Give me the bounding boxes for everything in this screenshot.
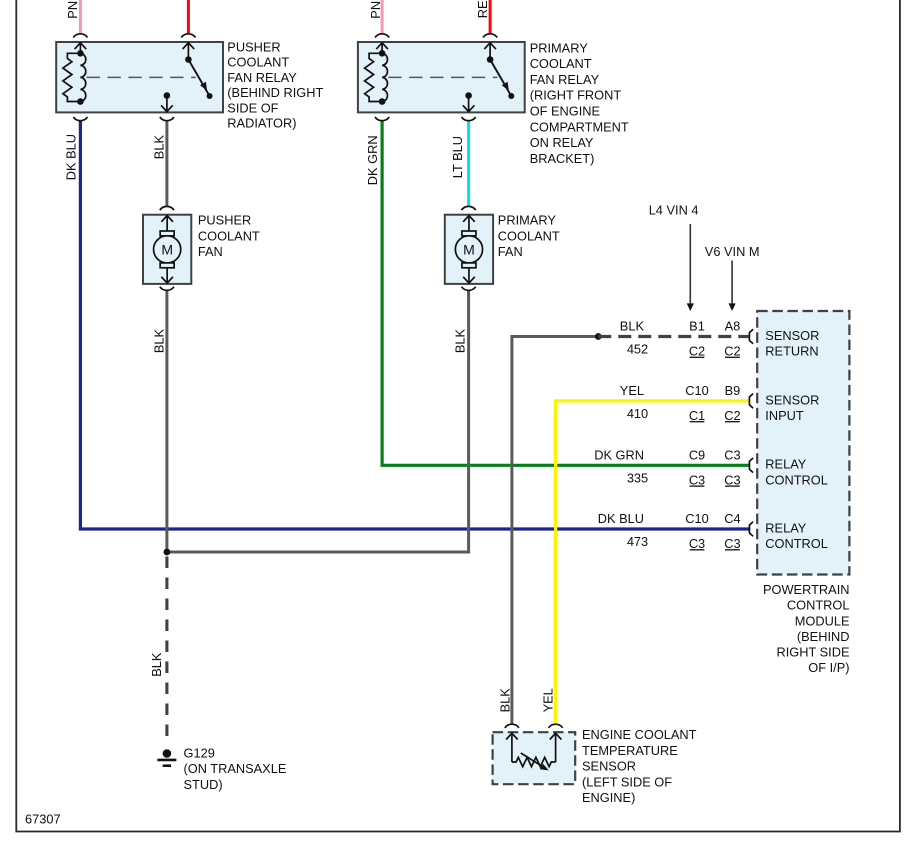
svg-text:CONTROL: CONTROL xyxy=(765,536,828,551)
svg-text:G129: G129 xyxy=(184,745,215,760)
svg-text:452: 452 xyxy=(627,342,648,357)
svg-text:C9: C9 xyxy=(689,447,705,462)
svg-text:M: M xyxy=(161,242,173,258)
svg-text:A8: A8 xyxy=(725,319,741,334)
svg-text:TEMPERATURE: TEMPERATURE xyxy=(582,743,678,758)
svg-text:ENGINE): ENGINE) xyxy=(582,790,635,805)
svg-text:(BEHIND: (BEHIND xyxy=(797,629,850,644)
svg-text:BLK: BLK xyxy=(620,319,645,334)
svg-text:C3: C3 xyxy=(689,536,705,551)
svg-text:C2: C2 xyxy=(724,344,740,359)
svg-text:COOLANT: COOLANT xyxy=(530,56,592,71)
svg-text:PUSHER: PUSHER xyxy=(227,40,280,55)
svg-text:SIDE OF: SIDE OF xyxy=(227,100,278,115)
svg-text:BLK: BLK xyxy=(498,688,513,713)
svg-text:YEL: YEL xyxy=(541,688,556,712)
svg-text:(RIGHT FRONT: (RIGHT FRONT xyxy=(530,88,622,103)
svg-text:OF ENGINE: OF ENGINE xyxy=(530,104,600,119)
svg-text:V6 VIN M: V6 VIN M xyxy=(705,244,760,259)
svg-text:C3: C3 xyxy=(724,447,740,462)
svg-text:CONTROL: CONTROL xyxy=(765,472,828,487)
svg-text:RELAY: RELAY xyxy=(765,520,806,535)
svg-text:BRACKET): BRACKET) xyxy=(530,151,595,166)
svg-text:C3: C3 xyxy=(689,472,705,487)
svg-text:FAN RELAY: FAN RELAY xyxy=(227,70,297,85)
svg-text:RADIATOR): RADIATOR) xyxy=(227,116,296,131)
svg-text:C2: C2 xyxy=(689,344,705,359)
svg-text:C2: C2 xyxy=(724,408,740,423)
svg-text:BLK: BLK xyxy=(149,652,164,677)
svg-text:RED: RED xyxy=(475,0,490,18)
svg-text:OF I/P): OF I/P) xyxy=(808,660,849,675)
svg-text:POWERTRAIN: POWERTRAIN xyxy=(763,582,850,597)
svg-text:SENSOR: SENSOR xyxy=(765,328,819,343)
svg-text:C10: C10 xyxy=(685,383,708,398)
svg-text:FAN: FAN xyxy=(198,244,223,259)
svg-text:67307: 67307 xyxy=(25,812,61,827)
svg-text:C3: C3 xyxy=(724,472,740,487)
svg-text:C1: C1 xyxy=(689,408,705,423)
svg-text:MODULE: MODULE xyxy=(795,613,850,628)
svg-text:PNK: PNK xyxy=(368,0,383,19)
svg-text:COOLANT: COOLANT xyxy=(498,228,560,243)
svg-text:(LEFT SIDE OF: (LEFT SIDE OF xyxy=(582,774,672,789)
svg-text:DK BLU: DK BLU xyxy=(63,134,78,180)
svg-text:M: M xyxy=(463,242,475,258)
svg-text:RIGHT SIDE: RIGHT SIDE xyxy=(776,645,849,660)
svg-text:CONTROL: CONTROL xyxy=(787,598,850,613)
svg-text:DK GRN: DK GRN xyxy=(365,135,380,185)
svg-text:SENSOR: SENSOR xyxy=(582,759,636,774)
svg-text:ENGINE COOLANT: ENGINE COOLANT xyxy=(582,727,697,742)
svg-text:C4: C4 xyxy=(724,511,740,526)
svg-text:PUSHER: PUSHER xyxy=(198,213,251,228)
svg-text:410: 410 xyxy=(627,406,648,421)
svg-text:STUD): STUD) xyxy=(184,777,223,792)
svg-text:PRIMARY: PRIMARY xyxy=(498,213,557,228)
svg-text:INPUT: INPUT xyxy=(765,408,804,423)
svg-text:RETURN: RETURN xyxy=(765,344,818,359)
svg-text:L4 VIN 4: L4 VIN 4 xyxy=(649,203,699,218)
svg-text:PNK: PNK xyxy=(65,0,80,19)
svg-text:B9: B9 xyxy=(725,383,741,398)
svg-text:DK BLU: DK BLU xyxy=(598,511,644,526)
svg-text:FAN RELAY: FAN RELAY xyxy=(530,72,600,87)
svg-text:PRIMARY: PRIMARY xyxy=(530,40,589,55)
svg-text:SENSOR: SENSOR xyxy=(765,392,819,407)
svg-text:C3: C3 xyxy=(724,536,740,551)
svg-text:(ON TRANSAXLE: (ON TRANSAXLE xyxy=(184,761,287,776)
svg-text:B1: B1 xyxy=(689,319,705,334)
svg-text:BLK: BLK xyxy=(151,135,166,160)
svg-text:BLK: BLK xyxy=(151,328,166,353)
svg-text:(BEHIND RIGHT: (BEHIND RIGHT xyxy=(227,85,323,100)
svg-text:ON RELAY: ON RELAY xyxy=(530,135,594,150)
svg-text:DK GRN: DK GRN xyxy=(594,447,644,462)
svg-text:RELAY: RELAY xyxy=(765,457,806,472)
svg-text:COOLANT: COOLANT xyxy=(198,228,260,243)
svg-text:COOLANT: COOLANT xyxy=(227,55,289,70)
svg-text:YEL: YEL xyxy=(620,383,644,398)
svg-text:335: 335 xyxy=(627,471,648,486)
svg-text:LT BLU: LT BLU xyxy=(450,136,465,178)
svg-text:COMPARTMENT: COMPARTMENT xyxy=(530,119,629,134)
svg-text:473: 473 xyxy=(627,534,648,549)
svg-text:FAN: FAN xyxy=(498,244,523,259)
svg-text:C10: C10 xyxy=(685,511,708,526)
svg-text:BLK: BLK xyxy=(452,328,467,353)
